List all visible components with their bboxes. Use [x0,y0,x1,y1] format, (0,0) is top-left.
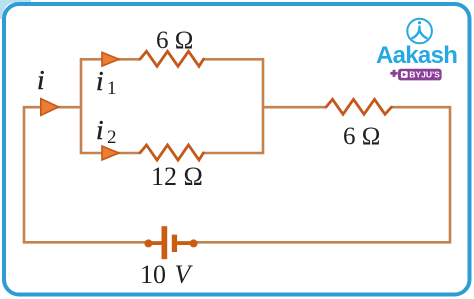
svg-text:i: i [37,65,45,95]
svg-text:6 Ω: 6 Ω [156,27,193,54]
battery long plate [162,226,168,259]
svg-text:i: i [96,66,104,96]
wire: bottom right of battery [174,241,451,244]
battery right lead stub [176,242,194,245]
svg-text:2: 2 [107,127,117,148]
resistor R3 6 ohm (series) [326,99,392,114]
wire: top branch right segment [204,58,265,61]
wire: bottom branch right segment [204,152,265,155]
current arrow i [41,99,59,116]
battery 10 V [144,226,197,259]
wire: mid-left horizontal (current i) [23,106,82,109]
current arrow i2 [102,146,119,160]
battery right terminal dot [190,239,198,247]
wire: parallel-block right vertical [262,58,265,154]
battery left terminal dot [144,239,152,247]
svg-text:1: 1 [107,78,117,99]
resistor R1 6 ohm (top branch) [140,51,204,66]
wire: right vertical [449,106,452,243]
wire: top branch left segment [80,58,140,61]
svg-text:Aakash: Aakash [376,42,457,69]
svg-text:BYJU'S: BYJU'S [409,70,440,80]
wire: branch split vertical [80,58,83,154]
svg-text:12 Ω: 12 Ω [151,162,203,191]
svg-text:6 Ω: 6 Ω [343,123,380,150]
svg-text:10 V: 10 V [140,260,194,289]
logo Aakash BYJU'S [376,19,457,81]
battery short plate [172,235,177,252]
resistor R2 12 ohm (bottom branch) [140,145,204,160]
wire: bottom branch left segment [80,152,140,155]
battery left lead stub [148,242,162,245]
wire: mid-right horizontal to series resistor [263,106,326,109]
wire: bottom left of battery [23,241,166,244]
current arrow i1 [102,52,119,66]
svg-text:i: i [96,115,104,145]
wire: left vertical [23,106,26,243]
wire: series resistor to right corner [392,106,452,109]
